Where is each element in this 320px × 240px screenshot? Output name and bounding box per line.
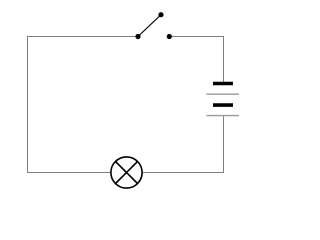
battery B1 plate 1 (short thick) [213,82,233,86]
wire top-left segment [27,36,138,38]
switch S1 left contact dot [135,34,140,39]
switch S1 lever [138,15,161,37]
wire bottom-right segment [142,172,224,174]
wire right lower (from battery) [223,116,225,173]
wire left vertical [27,36,29,173]
wire right upper (to battery) [223,37,225,83]
switch S1 lever end dot [158,12,163,17]
battery B1 plate 4 (long thin) [207,115,240,117]
lamp L1 cross stroke 2 [116,162,138,184]
wire top-right segment [169,36,224,38]
wire bottom-left segment [27,172,111,174]
lamp L1 circle [111,157,142,188]
battery B1 plate 3 (short thick) [213,103,233,107]
battery B1 plate 2 (long thin) [207,93,240,95]
lamp L1 cross stroke 1 [116,162,138,184]
switch S1 right contact dot [167,34,172,39]
